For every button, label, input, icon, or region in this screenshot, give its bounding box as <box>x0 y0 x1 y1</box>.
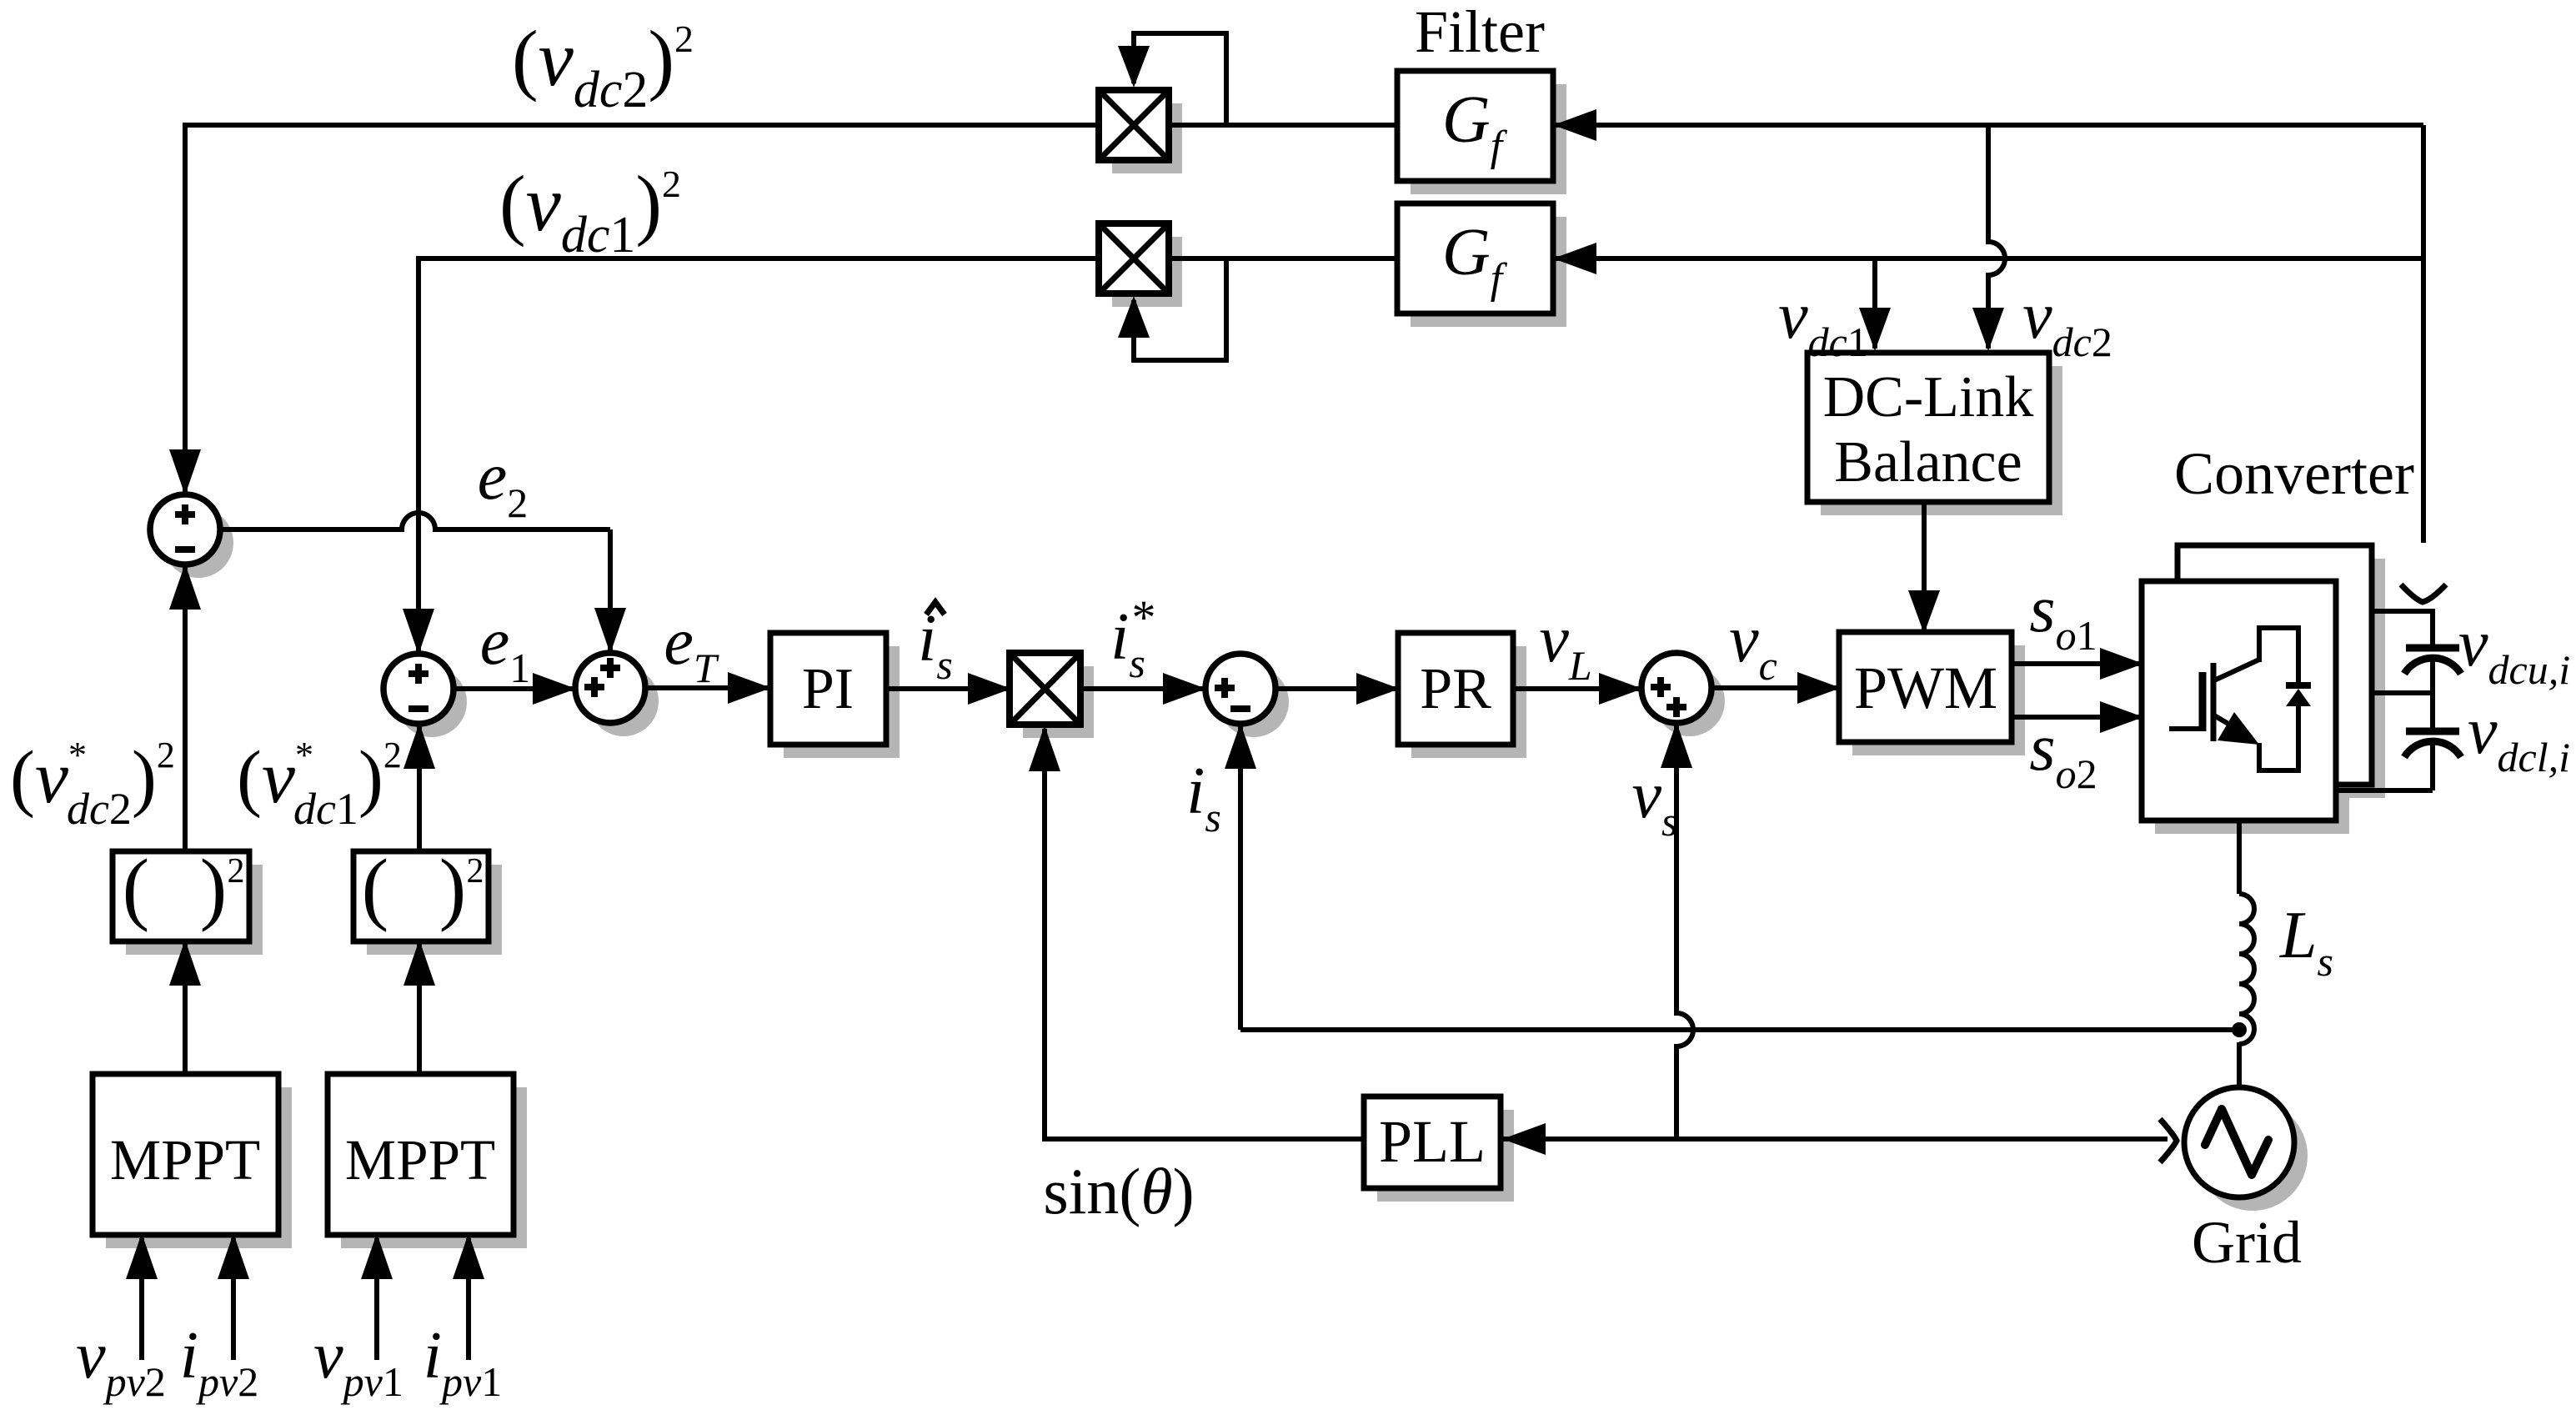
wire i_pv2 input arrow tail <box>231 1238 236 1360</box>
arrowhead MPPT output into squarer1 <box>169 940 201 986</box>
wire inductor bottom to grid source <box>2237 1042 2242 1089</box>
wire so2: PWM to Converter <box>2012 715 2146 720</box>
wire vL: PR to sum S4 <box>1513 686 1645 691</box>
svg-text:PR: PR <box>1420 657 1491 721</box>
wire v_pv2 input arrow tail <box>139 1238 144 1360</box>
wire Gf1 right input segment <box>1553 123 2423 128</box>
arrowhead into Gf2 right <box>1553 243 1596 274</box>
sum S2 (e1+e2=eT) shadow <box>589 666 659 736</box>
arrowhead into sum S1 top <box>403 609 434 655</box>
wire (v_dc1)^2 vertical down to sum S1 <box>416 256 421 657</box>
multiplier X3 (is_hat x sin) shadow <box>1023 666 1094 738</box>
arrowhead X2 loop into bottom <box>1118 296 1150 338</box>
arrowhead v_pv2 into MPPT <box>126 1233 158 1279</box>
wire (v_dc2)^2 top feedback horizontal <box>185 123 2423 128</box>
arrowhead vc into PWM <box>1797 672 1841 704</box>
multiplier X2 (squarer v_dc1) shadow <box>1112 237 1182 307</box>
block PI controller shadow <box>784 646 900 758</box>
block PLL <box>1364 1096 1501 1188</box>
arrowhead v_dc1 into DC-Link Balance <box>1859 308 1891 351</box>
multiplier X3 (is_hat x sin) <box>1010 653 1080 725</box>
sum S4 (vL+vs) shadow <box>1655 666 1725 736</box>
block squarer1 ( )^2 <box>113 851 249 941</box>
block converter back module <box>2178 545 2372 785</box>
wire X2 squaring feedback loop <box>1134 258 1226 360</box>
wire e1: sum S1 to sum S2 <box>454 686 579 691</box>
block Gf1 filter <box>1397 71 1553 181</box>
block PWM <box>1839 632 2012 742</box>
wire PLL input from grid line <box>1501 1137 2168 1142</box>
multiplier X1 (squarer v_dc2) <box>1099 90 1169 160</box>
block Gf2 filter <box>1397 203 1553 314</box>
arrowhead X1 loop into top <box>1118 46 1150 88</box>
arrowhead so1 into converter <box>2100 648 2143 680</box>
wire squarer1 to sum S0 <box>183 560 188 851</box>
arrowhead so2 into converter <box>2100 701 2143 733</box>
wire is feedback: sum S3 down <box>1238 720 1243 1030</box>
block PR controller shadow <box>1411 646 1526 758</box>
svg-text:Converter: Converter <box>2174 440 2414 507</box>
arrowhead i_pv1 into MPPT <box>453 1233 484 1279</box>
wire MPPT (pv2) to squarer1 <box>183 938 188 1074</box>
block PR controller <box>1398 633 1513 745</box>
grid AC source circle <box>2184 1087 2294 1197</box>
wire converter output down to inductor Ls <box>2237 820 2242 894</box>
block squarer2 ( )^2 shadow <box>367 865 502 955</box>
sum S3 (is*-is) <box>1205 654 1275 724</box>
svg-text:(: ( <box>123 843 150 933</box>
svg-text:PLL: PLL <box>1379 1108 1486 1175</box>
block MPPT unit (pv1) <box>328 1074 514 1235</box>
svg-text:): ) <box>439 843 467 933</box>
wire so1: PWM to Converter <box>2012 661 2146 666</box>
wire is*: X3 to sum S3 <box>1080 686 1209 691</box>
svg-text:MPPT: MPPT <box>345 1128 495 1192</box>
wire squarer2 to sum S1 <box>417 720 422 851</box>
wire vc: sum S4 to PWM <box>1711 685 1843 690</box>
wire (v_dc1)^2 horizontal segment to corner <box>418 256 1099 261</box>
arrowhead i_pv2 into MPPT <box>218 1233 249 1279</box>
svg-text:Filter: Filter <box>1415 0 1545 65</box>
arrowhead vs into sum S4 bottom <box>1661 722 1692 768</box>
arrowhead into sum S0 bottom <box>169 564 201 610</box>
sum S0 (v_dc2 error) shadow <box>163 508 233 578</box>
arrowhead into sum S2 top <box>594 608 626 654</box>
multiplier X1 (squarer v_dc2) shadow <box>1112 103 1182 173</box>
arrowhead is_hat into X3 <box>968 673 1011 705</box>
block converter main module <box>2142 581 2336 820</box>
wire v_dc2 tap down to DC-Link Balance with hop over (v_dc1)^2 wire <box>1988 125 2005 349</box>
arrowhead vL into sum S4 <box>1599 673 1642 705</box>
svg-text:*: * <box>1132 590 1156 645</box>
wire is feedback horizontal to grid node <box>1240 1027 2239 1032</box>
wire vs tap: sum S4 down to PLL line with hop over is wire <box>1676 720 1693 1139</box>
inductor Ls coil <box>2239 894 2254 1044</box>
wire DC-Link Balance to PWM <box>1922 502 1927 636</box>
arrowhead into PR <box>1356 673 1400 705</box>
wire capacitor string verticals <box>2430 609 2435 648</box>
block MPPT unit (pv2) shadow <box>106 1087 292 1248</box>
arrowhead DC-Link Balance output into PWM <box>1908 590 1940 634</box>
arrowhead MPPT output into squarer2 <box>403 940 435 986</box>
block Gf1 filter shadow <box>1411 84 1566 194</box>
arrowhead sin(theta) into X3 bottom <box>1029 725 1060 771</box>
wire e2 vertical down into sum S2 <box>608 529 613 657</box>
open arrowhead onto capacitor bank top <box>2401 585 2446 602</box>
block Gf2 filter shadow <box>1411 217 1566 327</box>
wire multiplier X1 to Gf1 <box>1169 123 1397 128</box>
block PI controller <box>770 633 886 745</box>
svg-text:MPPT: MPPT <box>110 1128 260 1192</box>
block squarer1 ( )^2 shadow <box>126 865 263 955</box>
svg-text:sin(θ): sin(θ) <box>1043 1155 1194 1227</box>
block converter main module shadow <box>2155 595 2349 834</box>
block PWM shadow <box>1852 645 2025 755</box>
sum S1 (v_dc1 error e1) shadow <box>397 667 467 737</box>
arrowhead v_dc2 into DC-Link Balance <box>1972 308 2004 351</box>
block MPPT unit (pv2) <box>93 1074 278 1235</box>
svg-text:DC-Link: DC-Link <box>1823 365 2034 429</box>
wire right sense vertical down to capacitor bank arrow <box>2421 125 2426 543</box>
wire sin(theta): PLL output to multiplier X3 <box>1045 729 1364 1139</box>
svg-text:): ) <box>200 843 228 933</box>
wire X1 squaring feedback loop <box>1134 33 1226 125</box>
block converter back module shadow <box>2191 559 2385 798</box>
open arrowhead into grid source <box>2160 1119 2177 1162</box>
sum S1 (v_dc1 error e1) <box>383 654 454 724</box>
grid source circle shadow <box>2198 1101 2308 1211</box>
wire sum S3 to PR <box>1275 686 1402 691</box>
block DC-Link Balance <box>1807 353 2049 502</box>
wire Gf2 right input segment <box>1553 256 2423 261</box>
svg-text:PWM: PWM <box>1854 655 1997 721</box>
arrowhead eT into PI <box>728 672 771 704</box>
junction dot at inductor node <box>2232 1022 2247 1037</box>
sum S2 (e1+e2=eT) <box>575 653 645 723</box>
svg-text:Grid: Grid <box>2192 1209 2302 1276</box>
sum S3 (is*-is) shadow <box>1219 667 1289 737</box>
arrowhead into Gf1 right <box>1553 109 1596 141</box>
capacitor upper v_dcu,i <box>2406 645 2459 652</box>
wire capacitor mid node stub <box>2336 690 2433 695</box>
transistor IGBT with anti-parallel diode inside converter <box>2169 628 2311 770</box>
svg-text:2: 2 <box>467 852 484 891</box>
svg-text:PI: PI <box>802 657 854 721</box>
wire i_pv1 input arrow tail <box>466 1238 471 1360</box>
wire multiplier X2 to Gf2 <box>1169 256 1397 261</box>
wire capacitor bottom stub <box>2336 788 2433 793</box>
sum S4 (vL+vs) <box>1641 653 1711 723</box>
wire (v_dc2)^2 left vertical down to sum S0 <box>183 123 188 498</box>
grid sine symbol <box>2205 1109 2268 1175</box>
wire v_pv1 input arrow tail <box>374 1238 379 1360</box>
wire e2: sum S0 output with hop over (v_dc1)^2 vertical <box>220 513 610 529</box>
block MPPT unit (pv1) shadow <box>341 1087 527 1248</box>
capacitor lower v_dcl,i <box>2406 728 2459 735</box>
wire is_hat: PI to multiplier X3 <box>886 686 1014 691</box>
svg-text:(: ( <box>362 843 389 933</box>
arrowhead grid line into PLL <box>1502 1123 1546 1155</box>
arrowhead is* into sum S3 <box>1163 673 1206 705</box>
wire eT: sum S2 to PI <box>645 685 774 690</box>
block DC-Link Balance shadow <box>1821 366 2062 515</box>
sum S0 (v_dc2 error) <box>150 494 220 565</box>
block PLL shadow <box>1377 1110 1514 1202</box>
arrowhead e1 into sum S2 <box>533 673 576 705</box>
multiplier X2 (squarer v_dc1) <box>1099 223 1169 294</box>
wire v_dc1 tap down to DC-Link Balance <box>1872 258 1877 349</box>
label is_hat accent <box>926 602 945 615</box>
svg-text:2: 2 <box>228 852 245 891</box>
wire converter top stub to capacitor bank <box>2372 609 2433 614</box>
svg-text:Balance: Balance <box>1834 430 2022 494</box>
block squarer2 ( )^2 <box>353 851 489 941</box>
arrowhead into sum S1 bottom <box>403 723 435 769</box>
arrowhead into sum S0 top <box>169 449 201 495</box>
arrowhead v_pv1 into MPPT <box>361 1233 393 1279</box>
wire MPPT (pv1) to squarer2 <box>417 938 422 1074</box>
arrowhead is into sum S3 bottom <box>1225 723 1256 769</box>
